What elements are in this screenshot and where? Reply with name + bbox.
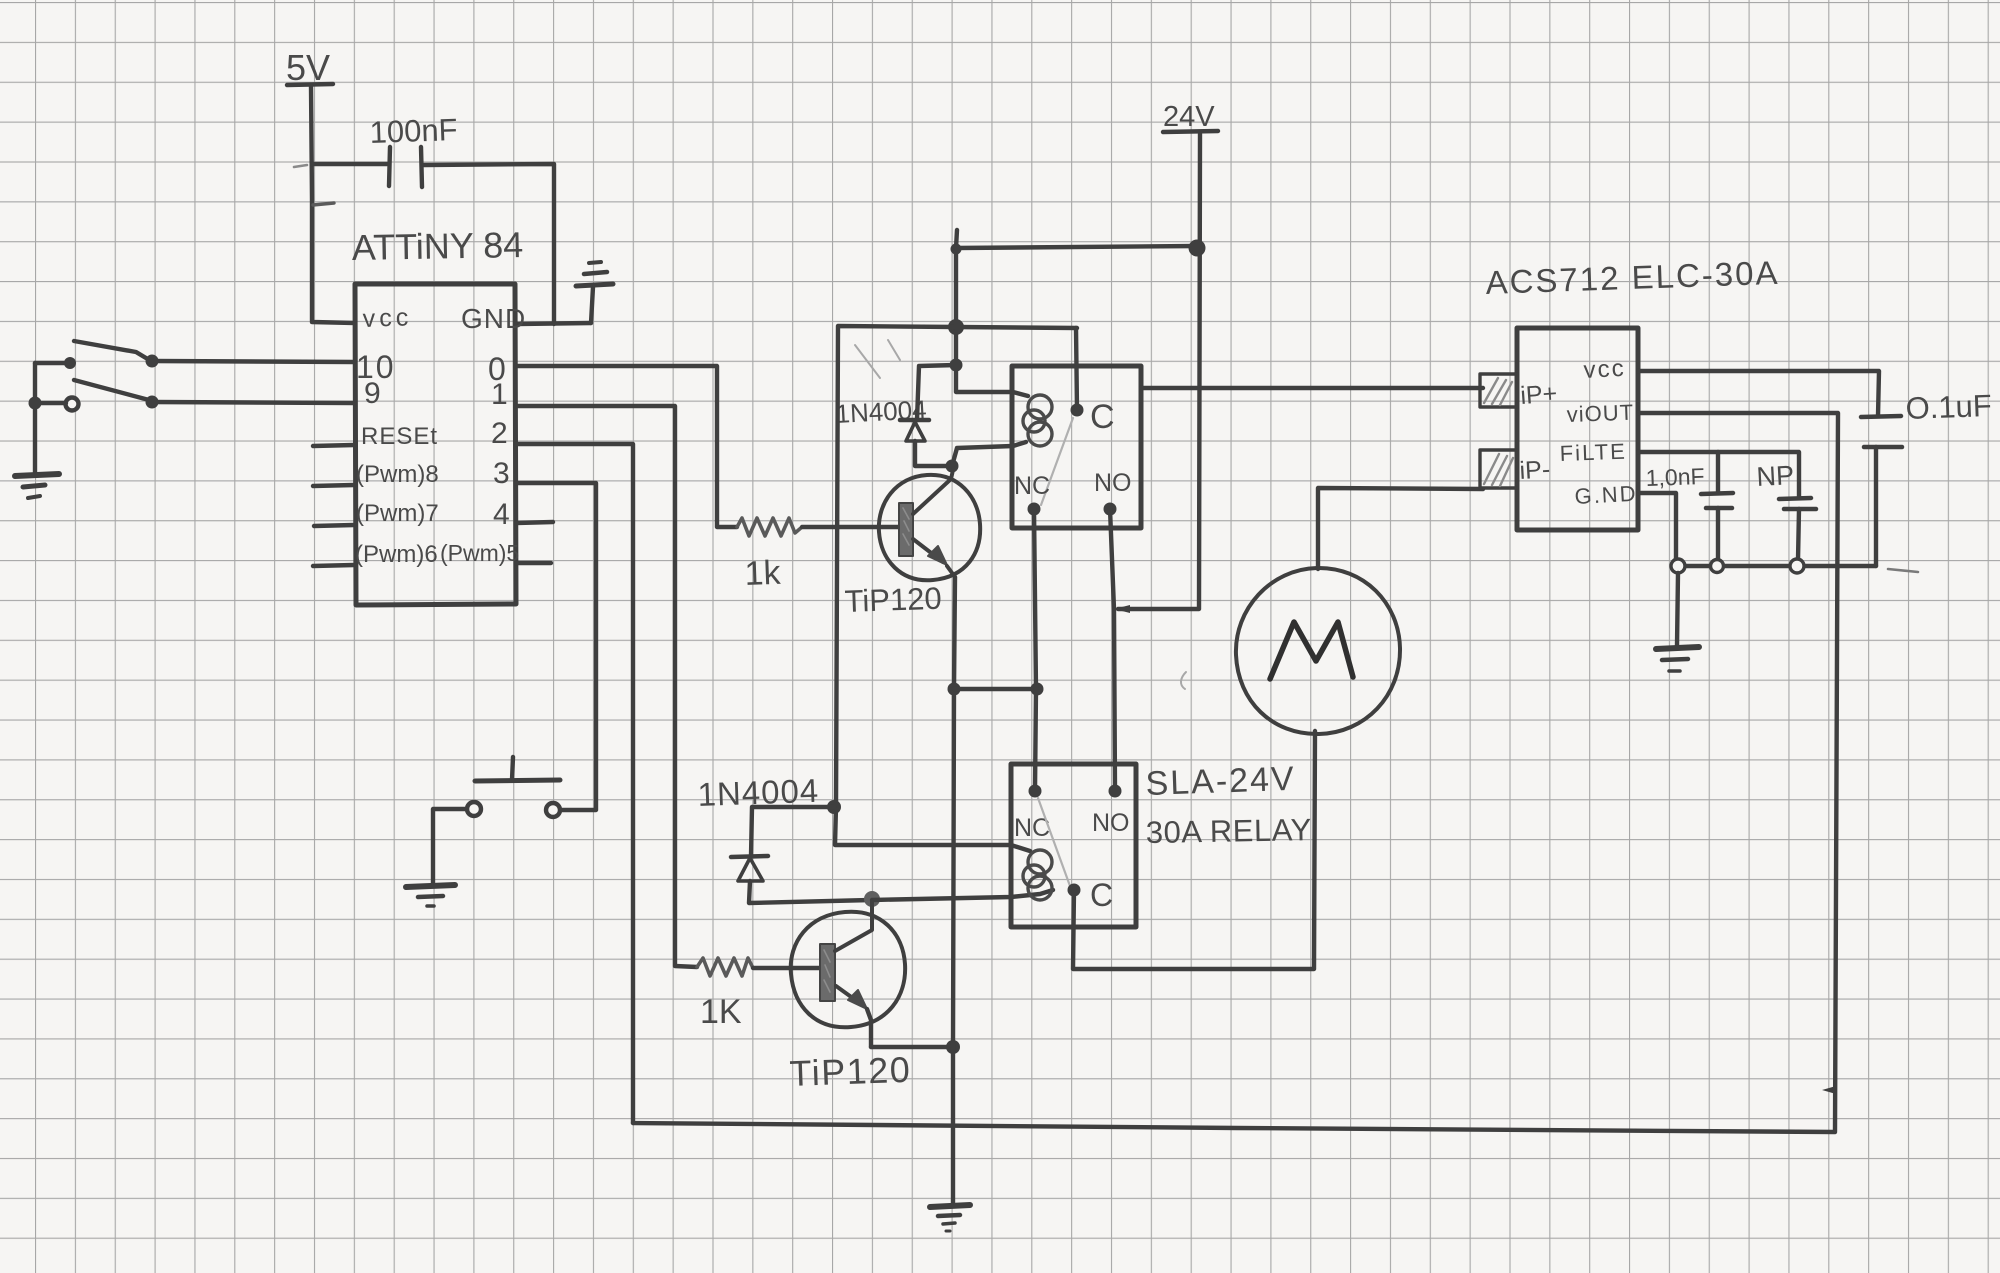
svg-text:iP-: iP- [1519,455,1551,485]
wire PWM6 stub [313,565,354,566]
wire S1 common to left rail [35,361,70,365]
ground symbol left [15,474,59,498]
svg-text:iP+: iP+ [1519,379,1558,410]
wire pin 3 down to push button [516,483,596,810]
capacitor C1 100nF plates [389,147,422,187]
svg-text:5V: 5V [286,47,330,88]
wire emitter riser down to ground [953,577,955,1204]
relay K2 coil [1023,850,1052,900]
relay K2 armature [1038,798,1070,886]
transistor Q2 base bar [820,944,835,1001]
svg-text:TiP120: TiP120 [844,581,942,619]
light sketch stroke near motor [1181,672,1186,689]
wire pin5 stub [516,561,551,565]
wire FiLTE to caps [1638,452,1799,498]
svg-text:NP: NP [1756,460,1795,492]
wire S2 common to left rail [37,401,66,405]
wire Vcc to 0.1uF [1638,371,1879,416]
diode D2 symbol [731,856,768,881]
node junction ring C3 [1711,560,1724,573]
relay K2 C contact [1068,884,1081,897]
wire D1 bottom to collector junction [915,441,952,466]
wire ACS ground rail [1684,564,1876,568]
capacitor C3 1.0nF plates [1701,493,1733,508]
switch S1 [64,341,159,369]
relay K1 box [1012,366,1141,528]
push button SW3 [467,757,560,817]
svg-text:vcc: vcc [362,303,412,333]
svg-text:1: 1 [491,378,508,411]
node junction riser diode top [950,359,963,372]
relay K1 coil [1023,395,1052,446]
svg-text:(Pwm)5: (Pwm)5 [440,540,519,566]
switch S2 [66,380,159,411]
svg-text:(Pwm)6: (Pwm)6 [355,541,438,568]
motor M1 glyph [1270,622,1353,679]
svg-text:SLA-24V: SLA-24V [1145,760,1296,803]
wire collector junction to relay2 coil bottom [872,890,1053,900]
wire left rail down to ground [33,363,37,474]
transistor Q1 TIP120 circle [879,475,980,580]
node junction riser top-wire [951,244,962,255]
node junction ring GND [1671,559,1685,573]
svg-text:100nF: 100nF [369,112,458,150]
motor M1 circle [1236,568,1400,734]
wire collector junction to relay1 coil bottom [952,442,1026,466]
relay K1 NO contact [1104,503,1117,516]
svg-text:(Pwm)7: (Pwm)7 [356,500,439,527]
node 24V supply label [1163,101,1218,133]
node junction riser y324 [948,319,964,335]
wire PWM7 stub [314,525,354,526]
svg-text:NO: NO [1094,469,1132,497]
svg-text:4: 4 [493,498,510,531]
svg-text:(Pwm)8: (Pwm)8 [356,461,439,488]
wire D1 branch top [917,365,956,420]
light sketch strokes near D1 [855,340,900,378]
capacitor C4 NP plates [1779,498,1816,509]
svg-text:GND: GND [461,303,526,334]
relay K2 NC contact [1029,785,1042,798]
svg-text:RESEt: RESEt [361,423,438,450]
node junction emitter1 [948,683,961,696]
wire C2 bottom to ground rail [1874,447,1878,566]
wire R2 to Q2 base [753,966,820,970]
wire 24V top link [956,246,1198,248]
wire NO1 to NO2 [1110,509,1115,791]
op-amp U2 ACS712 box [1517,328,1638,530]
svg-text:FiLTE: FiLTE [1559,439,1627,466]
node junction collector-coil-diode [946,460,959,473]
ground symbol bottom center [930,1205,970,1231]
svg-text:viOUT: viOUT [1566,400,1634,427]
wire Q2 emitter to ground riser [871,1045,953,1049]
node junction 24V top-link [1189,240,1206,257]
wire R1 to Q1 base [802,525,898,529]
wire C4 bottom lead [1798,509,1799,560]
wire button to ground [433,809,467,884]
resistor R1 1K zigzag [737,518,802,536]
relay K1 NC contact [1028,503,1041,516]
svg-text:C: C [1090,877,1113,913]
svg-text:1,0nF: 1,0nF [1645,463,1705,491]
wire ground rail down [1677,573,1678,646]
wire pin 2 down to bottom rail [516,444,633,1123]
wire relay1 to ip+ [1141,386,1483,390]
svg-text:2: 2 [491,417,508,450]
ground symbol near GND pin (inverted) [576,262,613,323]
svg-text:1k: 1k [744,554,782,593]
relay K1 C contact [1071,404,1084,417]
resistor R2 1K zigzag [697,958,753,976]
transistor Q1 base bar [899,503,913,556]
wire GND stub from IC to ground [516,323,591,324]
wire RESET stub [313,445,354,446]
ground symbol ACS [1656,647,1699,671]
wire bottom rail to VIOUT riser [633,1123,1835,1132]
svg-text:vcc: vcc [1583,355,1626,384]
ground symbol below button [406,885,455,906]
wire 1.0nF top lead [1716,452,1720,493]
wire main riser 24V to relay1 coil [956,230,1028,396]
wire 24V down [1118,134,1200,609]
svg-text:G.ND: G.ND [1574,481,1638,509]
wire pin 0 to base resistor [516,366,737,527]
svg-text:ATTiNY 84: ATTiNY 84 [351,224,523,268]
wire branch x838 from riser [835,326,1077,851]
node U2 pad ip+ [1480,374,1517,407]
node U2 pad ip- [1480,450,1517,488]
node junction NC rail [1031,683,1044,696]
wire C1 right plate to GND pin [424,164,554,324]
wire ViOUT to right riser [1638,413,1838,1131]
wire 5V rail down to VCC [311,86,355,323]
transistor Q2 collector stroke [835,901,872,951]
svg-text:NC: NC [1014,472,1050,500]
svg-text:1K: 1K [700,993,742,1031]
node junction left rail [29,397,42,410]
node junction arrow at NO riser [1114,605,1130,613]
wire GND stub to ground rail [1638,493,1676,560]
stray tick on 5V rail [313,203,334,205]
wire PWM8 stub [313,485,354,486]
svg-text:C: C [1090,398,1115,436]
wire pin 1 down to R2 [516,406,697,967]
node junction ring C4 [1790,559,1804,573]
wire pin4 stub [516,522,553,523]
transistor Q2 TIP120 circle [791,912,905,1028]
switch S2 to pin 9 wire [152,402,354,403]
capacitor C2 0.1uF plates [1861,416,1902,447]
stray pencil stroke [1888,569,1918,572]
wire D2 bottom to Q2 collector junction [749,881,871,903]
svg-text:24V: 24V [1163,101,1215,133]
diode D1 symbol [900,420,929,441]
wire 5V to C1 left plate [312,162,387,166]
wire K1 C up to 24V rail [1076,328,1077,410]
transistor Q2 emitter stroke with arrow [836,986,871,1047]
relay K2 box [1011,764,1136,927]
wire C3 bottom lead [1716,508,1720,560]
op-amp U1 ATtiny84 box [355,284,516,605]
svg-text:30A RELAY: 30A RELAY [1146,812,1313,850]
stray tick left of cap junction [294,165,307,167]
svg-text:3: 3 [493,457,510,490]
transistor Q1 emitter stroke with arrow [913,539,955,577]
node junction Q2 collector [864,891,880,907]
relay K1 armature [1041,418,1073,505]
switch S1 to pin 10 wire [152,361,354,362]
wire motor top to ip- [1318,488,1483,569]
svg-text:O.1uF: O.1uF [1905,388,1992,426]
svg-text:TiP120: TiP120 [789,1049,912,1094]
svg-text:9: 9 [364,377,381,410]
node junction diode2 top [827,800,841,814]
transistor Q1 collector stroke [913,470,953,514]
wire K2 C to motor bottom [1073,731,1315,969]
node tick on riser [1822,1086,1836,1094]
wire emitter1 to NC rail [954,687,1037,691]
node junction emitter2-riser [946,1040,960,1054]
node 5V supply label [286,47,333,88]
wire D2 top lead [751,807,834,856]
relay K2 NO contact [1109,785,1122,798]
wire NC1 to NC2 [1034,509,1036,791]
svg-text:NO: NO [1092,809,1130,837]
